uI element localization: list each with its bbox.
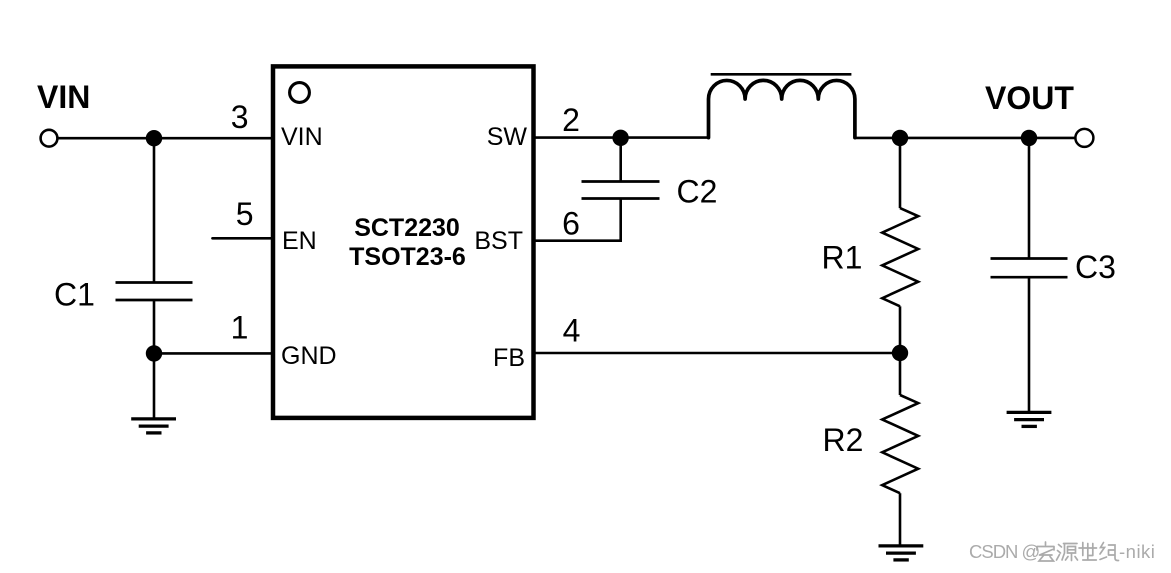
ground symbol (C3) <box>1007 412 1052 426</box>
wire VOUT node down to C3 <box>1028 138 1031 259</box>
junction dot ground node <box>146 345 162 361</box>
capacitor C3 <box>991 259 1068 278</box>
pin-1 indicator circle <box>290 83 310 103</box>
svg-text:C1: C1 <box>54 276 95 312</box>
svg-text:6: 6 <box>562 205 580 241</box>
watermark CJK characters 宏源世纪 (hand drawn) <box>1037 542 1119 561</box>
svg-text:R2: R2 <box>823 422 864 458</box>
wire inductor to VOUT terminal <box>855 137 1084 140</box>
svg-text:1: 1 <box>231 310 249 346</box>
junction dot VOUT node (C3) <box>1021 130 1037 146</box>
wire SW pin to inductor <box>534 136 710 139</box>
svg-text:SCT2230: SCT2230 <box>354 214 460 242</box>
svg-text:4: 4 <box>563 313 581 349</box>
svg-text:TSOT23-6: TSOT23-6 <box>349 243 466 271</box>
wire SW node down to C2 <box>619 138 622 182</box>
svg-text:C3: C3 <box>1075 249 1116 285</box>
capacitor C1 <box>116 283 193 301</box>
svg-text:VIN: VIN <box>281 123 323 151</box>
glyph shi <box>1079 543 1097 561</box>
watermark CSDN text <box>969 541 1155 562</box>
wire VIN terminal to IC VIN pin <box>49 137 273 140</box>
wire VIN node down to C1 <box>153 138 156 282</box>
op IC U1 SCT2230 box <box>273 66 534 418</box>
inductor L1 coil <box>709 80 855 137</box>
wire FB pin to FB node <box>534 352 901 355</box>
wire EN stub <box>213 237 274 240</box>
svg-text:CSDN @: CSDN @ <box>969 541 1040 562</box>
svg-text:5: 5 <box>236 196 254 232</box>
wire FB node down to R2 <box>899 353 902 395</box>
wire R2 to ground <box>899 493 902 546</box>
glyph hong <box>1037 542 1054 561</box>
wire C1 to ground node <box>153 300 156 353</box>
inductor L1 core bar <box>711 73 852 76</box>
svg-text:SW: SW <box>487 123 528 151</box>
resistor R2 <box>882 395 918 493</box>
svg-text:VOUT: VOUT <box>985 80 1074 116</box>
wire C3 to ground <box>1028 277 1031 412</box>
junction dot VIN node <box>146 130 162 146</box>
wire VOUT node down to R1 <box>899 138 902 208</box>
wire ground node to IC GND pin <box>154 352 273 355</box>
capacitor C2 <box>582 182 660 199</box>
svg-text:3: 3 <box>231 99 249 135</box>
wire ground node down <box>153 353 156 419</box>
resistor R1 <box>882 208 918 306</box>
svg-text:BST: BST <box>474 227 523 255</box>
glyph yuan <box>1057 544 1078 561</box>
junction dot FB node <box>892 345 908 361</box>
junction dot SW node <box>612 130 628 146</box>
wire R1 to FB node <box>899 306 902 353</box>
ground symbol (C1) <box>131 419 176 433</box>
glyph ji <box>1100 543 1119 561</box>
ground symbol (R2) <box>879 546 924 560</box>
junction dot VOUT node (R1) <box>892 130 908 146</box>
svg-text:EN: EN <box>282 227 317 255</box>
svg-text:C2: C2 <box>677 173 718 209</box>
svg-text:FB: FB <box>493 344 525 372</box>
terminal VOUT (open circle) <box>1075 129 1093 147</box>
terminal VIN (open circle) <box>41 130 58 147</box>
svg-text:2: 2 <box>562 102 580 138</box>
svg-text:GND: GND <box>281 342 337 370</box>
svg-text:VIN: VIN <box>37 79 90 115</box>
svg-text:-niki: -niki <box>1119 541 1155 562</box>
svg-text:R1: R1 <box>822 240 863 276</box>
wire C2 to BST pin <box>534 199 621 241</box>
